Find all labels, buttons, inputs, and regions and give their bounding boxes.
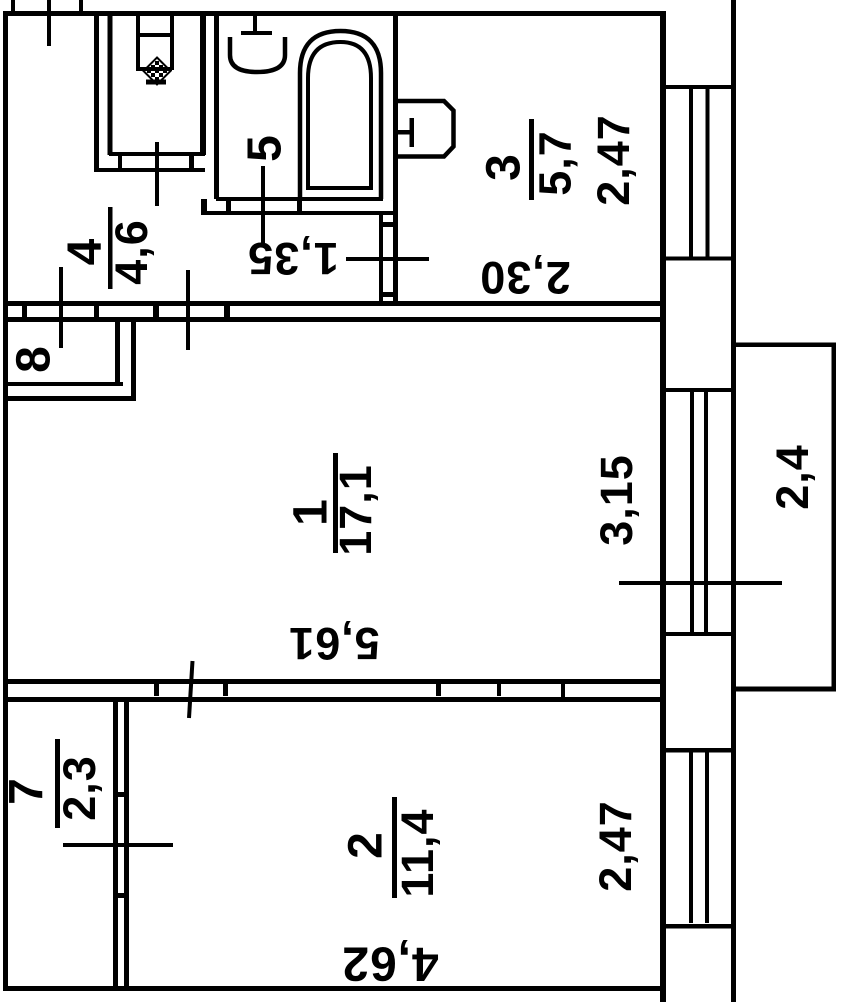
toilet room left wall outer: [94, 15, 99, 172]
room1/room2 wall tie 1: [154, 684, 159, 696]
kitchen wall connector lower: [383, 292, 393, 297]
room8 bottom wall: [8, 382, 123, 386]
bathroom door jamb left: [226, 201, 231, 211]
balcony top wall: [736, 343, 832, 348]
room 5 leader line: [261, 166, 265, 243]
kitchen sink outline: [398, 101, 454, 157]
room7 dimension tick: [63, 843, 173, 847]
dimension tick hallway wall left: [59, 267, 63, 348]
toilet bottom wall inner line: [109, 152, 205, 156]
room 4 label fraction bar: [108, 207, 113, 289]
bathtub outer outline: [300, 31, 381, 199]
wall room1/room2 top line: [3, 679, 664, 684]
kitchen wall connector upper: [383, 222, 393, 227]
window W1 glazing line 2: [706, 88, 710, 260]
room8 right wall: [115, 322, 120, 385]
washbasin bowl: [230, 37, 285, 72]
washbasin tap bar: [241, 31, 272, 35]
svg-text:8: 8: [8, 345, 61, 373]
bathroom bottom wall inner line: [216, 197, 383, 201]
window W3 glazing line 1: [689, 751, 693, 923]
dimension tick right wall between 3,15 and 2,47: [619, 581, 782, 585]
svg-text:4: 4: [59, 238, 112, 266]
svg-text:7: 7: [1, 777, 54, 805]
washbasin tap stem: [253, 15, 257, 31]
main wall hallway/room1 bottom line: [3, 317, 664, 322]
window W2 room1 top cap: [665, 388, 731, 392]
wall between bathroom and kitchen: [393, 11, 398, 215]
top edge tick 1: [11, 0, 15, 11]
svg-text:2,30: 2,30: [479, 252, 571, 303]
svg-text:2,47: 2,47: [588, 114, 639, 206]
svg-text:1,35: 1,35: [247, 233, 339, 284]
top edge tick 3: [79, 0, 83, 11]
toilet right wall: [200, 15, 206, 155]
dimension tick 1,35: [379, 248, 383, 280]
window W3 glazing line 2: [705, 751, 709, 923]
kitchen left wall lower line B: [393, 215, 398, 306]
room 2 label fraction bar: [392, 797, 397, 898]
balcony right wall: [832, 343, 837, 692]
room1/room2 wall tie 4: [497, 684, 501, 696]
svg-text:17,1: 17,1: [330, 464, 381, 556]
toilet door jamb right: [189, 155, 194, 168]
room7 wall line A: [113, 701, 118, 986]
toilet room left wall inner: [108, 15, 113, 155]
svg-text:5,7: 5,7: [530, 130, 581, 196]
bathroom door jamb right: [297, 201, 302, 211]
room 3 label fraction bar: [529, 119, 534, 200]
svg-text:3,15: 3,15: [591, 454, 642, 546]
toilet bottom wall outer line: [94, 168, 205, 172]
bathtub inner outline: [308, 42, 371, 188]
kitchen left wall lower line A: [379, 212, 383, 306]
wall left exterior: [3, 11, 8, 991]
window W1 bottom cap: [665, 257, 731, 261]
svg-text:3: 3: [478, 153, 531, 181]
top edge tick 2 entrance: [47, 0, 51, 46]
wall right exterior: [660, 11, 666, 1002]
main wall tie 2: [94, 306, 99, 317]
svg-text:2,47: 2,47: [590, 800, 641, 892]
room8 outer wall horizontal: [8, 396, 135, 401]
main wall hallway/room1 top line: [3, 301, 664, 306]
cistern bottom line: [136, 67, 172, 71]
room 6 leader line: [155, 142, 159, 206]
dimension tick hallway wall right: [186, 270, 190, 350]
facade line right continuous: [731, 0, 736, 1002]
bathroom bottom wall outer line: [201, 211, 398, 215]
window W2 glazing line 1: [690, 392, 694, 632]
wall room1/room2 bottom line: [3, 697, 664, 702]
svg-text:5: 5: [239, 134, 292, 162]
window W3 room2 top cap: [665, 748, 731, 753]
room 1 label fraction bar: [333, 453, 338, 553]
svg-text:2,4: 2,4: [767, 444, 818, 510]
room1/room2 wall tie 2: [223, 684, 228, 696]
wall top exterior: [3, 11, 664, 16]
cistern left side: [136, 15, 140, 70]
wall bottom exterior: [3, 986, 665, 991]
room7 wall tie upper: [118, 792, 124, 797]
window W2 bottom cap: [665, 632, 731, 636]
svg-text:4,62: 4,62: [341, 937, 438, 990]
main wall tie 4: [224, 306, 230, 317]
room7 wall line B: [124, 701, 129, 986]
room7 wall tie lower: [118, 893, 124, 898]
main wall tie 1: [22, 306, 27, 317]
cistern right side: [170, 15, 174, 70]
room 7 label fraction bar: [55, 739, 60, 828]
bathroom left wall: [214, 15, 219, 199]
window W1 kitchen top cap: [665, 85, 731, 89]
svg-text:4,6: 4,6: [106, 219, 157, 285]
toilet door jamb left: [118, 155, 122, 168]
svg-text:11,4: 11,4: [392, 808, 443, 897]
svg-text:5,61: 5,61: [288, 618, 380, 669]
room1/room2 wall tie 3: [436, 684, 441, 696]
window W2 glazing line 2: [704, 392, 708, 632]
door swing tick room2: [189, 661, 193, 718]
window W1 glazing line 1: [689, 88, 693, 260]
cistern inner line: [136, 33, 174, 37]
toilet bowl base bar: [146, 80, 166, 85]
bathroom wall corner connector: [201, 199, 207, 215]
room8 outer wall vertical: [131, 322, 136, 401]
balcony bottom wall: [736, 687, 832, 692]
main wall tie 3: [153, 306, 159, 317]
svg-text:2,3: 2,3: [54, 755, 105, 821]
kitchen sink tap bar: [398, 130, 412, 135]
svg-text:2: 2: [340, 831, 393, 859]
dimension line 1,35: [346, 257, 429, 261]
window W3 bottom cap: [665, 924, 731, 929]
kitchen sink tap stem: [410, 118, 415, 147]
room1/room2 wall tie 5: [561, 684, 565, 697]
